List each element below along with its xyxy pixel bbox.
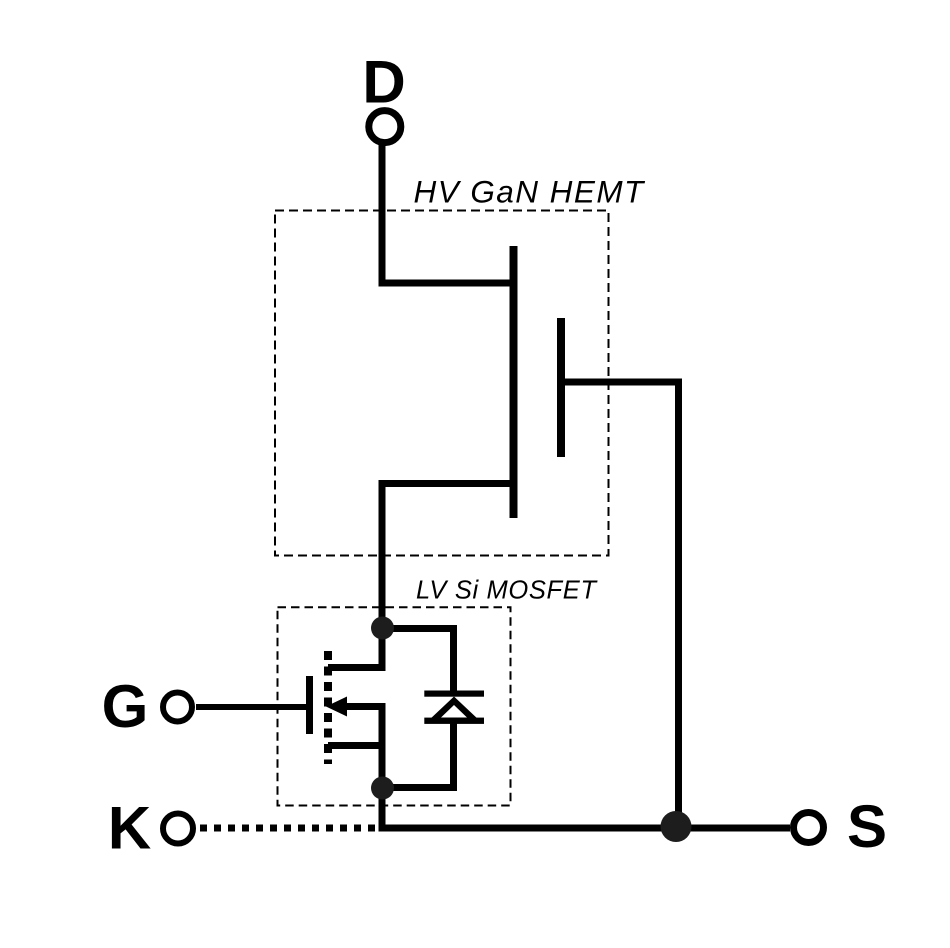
node S junction dot — [661, 811, 692, 842]
LV Si MOSFET dashed box — [278, 607, 511, 805]
wire: node A to body diode top — [382, 629, 454, 692]
body diode D1 cathode bar — [424, 691, 484, 697]
svg-text:K: K — [108, 795, 151, 862]
wire: HEMT source stub down to node A — [382, 484, 513, 629]
terminal D (open circle) — [369, 111, 401, 143]
svg-text:S: S — [847, 793, 887, 860]
body diode D1 anode bar — [424, 718, 484, 724]
node A junction dot — [371, 617, 394, 640]
dotted wire: K to MOSFET source node — [200, 825, 378, 832]
transistor Q1 (HV GaN HEMT) channel bar — [510, 246, 518, 518]
wire: HEMT gate right and down to S node — [565, 382, 679, 828]
svg-text:LV Si MOSFET: LV Si MOSFET — [416, 576, 598, 604]
terminal G (open circle) — [163, 693, 192, 722]
wire: Q2 body stub and vertical to bottom — [340, 703, 382, 828]
svg-text:G: G — [102, 673, 149, 740]
transistor Q2 dashed channel — [324, 651, 332, 764]
node B junction dot — [371, 777, 394, 800]
terminal K (open circle) — [163, 814, 193, 844]
wire: body diode bottom to node B — [382, 721, 454, 788]
wire: Q2 drain stub — [328, 628, 382, 668]
terminal S (open circle) — [794, 813, 824, 843]
svg-text:HV GaN HEMT: HV GaN HEMT — [414, 173, 647, 209]
wire: D terminal down to HEMT drain stub — [382, 145, 513, 284]
wire: bottom source rail — [379, 825, 791, 832]
transistor Q2 (LV Si MOSFET) gate bar — [306, 676, 313, 734]
body diode D1 triangle outline — [429, 697, 480, 721]
wire: Q2 source stub — [328, 742, 382, 749]
wire: G terminal to MOSFET gate — [196, 704, 306, 710]
HV GaN HEMT dashed box — [275, 211, 609, 556]
transistor Q1 gate bar — [557, 318, 565, 457]
Q2 body arrow (points to channel) — [326, 697, 347, 717]
svg-text:D: D — [362, 49, 405, 116]
